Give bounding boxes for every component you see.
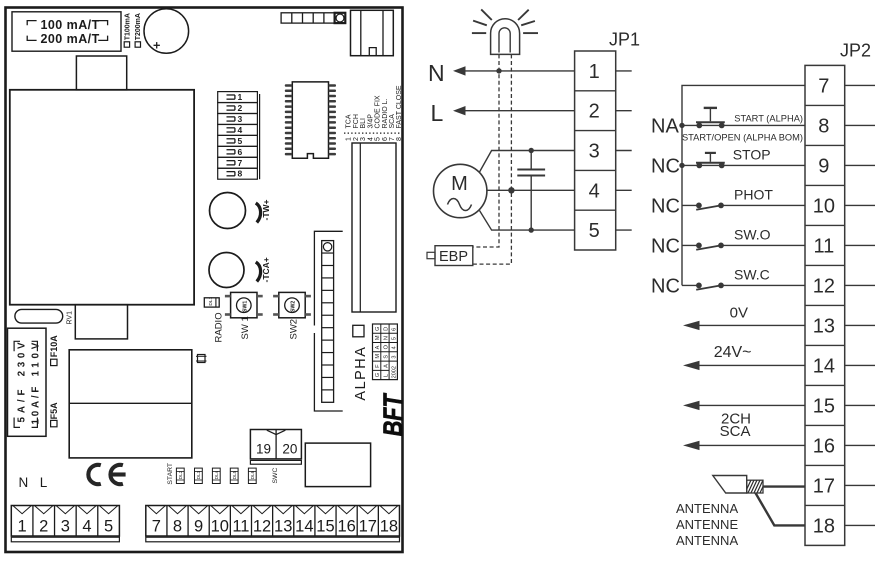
svg-text:2: 2	[353, 137, 360, 141]
svg-text:2: 2	[238, 103, 243, 113]
svg-text:DL2: DL2	[178, 470, 183, 479]
svg-text:200 mA/T: 200 mA/T	[41, 32, 100, 46]
svg-text:N: N	[383, 336, 389, 340]
svg-text:NC: NC	[651, 195, 680, 217]
svg-text:A: A	[375, 345, 381, 349]
svg-text:17: 17	[359, 517, 377, 535]
svg-text:NC: NC	[651, 155, 680, 177]
svg-text:12: 12	[813, 275, 835, 297]
svg-text:BLI: BLI	[360, 118, 367, 129]
svg-text:DL3: DL3	[196, 470, 201, 479]
svg-text:8: 8	[173, 517, 182, 535]
svg-text:RADIO L.: RADIO L.	[382, 98, 389, 128]
svg-text:6: 6	[238, 147, 243, 157]
svg-text:14: 14	[813, 355, 835, 377]
svg-text:T200mA: T200mA	[135, 13, 142, 40]
svg-text:FAST CLOSE: FAST CLOSE	[396, 85, 403, 128]
svg-text:PHOT: PHOT	[734, 186, 773, 202]
svg-text:START: START	[167, 463, 174, 485]
svg-text:6: 6	[382, 137, 389, 141]
svg-text:8: 8	[818, 115, 829, 137]
svg-text:L: L	[383, 374, 389, 377]
svg-text:D: D	[383, 327, 389, 331]
svg-text:4: 4	[238, 125, 243, 135]
svg-text:L: L	[431, 100, 444, 126]
svg-text:11: 11	[232, 517, 249, 535]
svg-text:ANTENNE: ANTENNE	[676, 517, 738, 532]
svg-text:15: 15	[316, 517, 334, 535]
svg-text:4: 4	[367, 137, 374, 141]
svg-text:F: F	[375, 364, 381, 368]
svg-text:20: 20	[282, 442, 297, 457]
svg-text:19: 19	[256, 442, 271, 457]
svg-text:0V: 0V	[730, 305, 748, 322]
svg-text:3/4P: 3/4P	[367, 114, 374, 129]
svg-text:JP1: JP1	[609, 30, 640, 50]
svg-text:SW1: SW1	[242, 301, 248, 312]
svg-text:1: 1	[238, 92, 243, 102]
svg-text:SWC: SWC	[272, 468, 279, 484]
svg-text:3: 3	[392, 356, 398, 359]
svg-text:M: M	[451, 173, 468, 195]
svg-text:-TW+: -TW+	[261, 199, 271, 220]
svg-text:7: 7	[152, 517, 161, 535]
svg-text:DL4: DL4	[214, 470, 219, 479]
svg-text:3: 3	[61, 517, 70, 535]
svg-text:SW 1: SW 1	[240, 316, 251, 339]
svg-text:RADIO: RADIO	[214, 312, 225, 342]
svg-text:NA: NA	[651, 115, 679, 137]
svg-text:10A/F: 10A/F	[31, 384, 42, 425]
svg-text:ANTENNA: ANTENNA	[676, 501, 738, 516]
svg-text:-TCA+: -TCA+	[261, 257, 271, 282]
svg-text:S: S	[383, 355, 389, 359]
svg-text:2: 2	[589, 101, 600, 123]
svg-text:BFT: BFT	[378, 392, 408, 436]
svg-text:NC: NC	[651, 235, 680, 257]
svg-text:SW.O: SW.O	[734, 226, 771, 242]
svg-text:ALPHA: ALPHA	[353, 346, 369, 401]
svg-text:18: 18	[380, 517, 398, 535]
svg-text:7: 7	[389, 137, 396, 141]
svg-text:5A/F: 5A/F	[17, 386, 28, 423]
svg-text:DL1: DL1	[208, 296, 214, 305]
svg-text:3: 3	[360, 137, 367, 141]
svg-text:9: 9	[194, 517, 203, 535]
svg-text:O: O	[383, 344, 389, 349]
svg-text:N: N	[19, 475, 29, 490]
svg-text:5: 5	[375, 137, 382, 141]
svg-text:17: 17	[813, 475, 835, 497]
svg-text:11: 11	[813, 235, 834, 257]
svg-text:T100mA: T100mA	[124, 13, 131, 40]
svg-text:18: 18	[813, 515, 835, 537]
svg-text:JP2: JP2	[840, 41, 871, 61]
svg-text:6: 6	[392, 328, 398, 331]
svg-text:FCH: FCH	[353, 114, 360, 128]
svg-text:2: 2	[39, 517, 48, 535]
svg-text:EBP: EBP	[439, 249, 468, 265]
svg-text:14: 14	[295, 517, 313, 535]
svg-text:24V~: 24V~	[714, 344, 752, 361]
svg-text:CODE FIX: CODE FIX	[375, 95, 382, 128]
svg-text:START/OPEN (ALPHA BOM): START/OPEN (ALPHA BOM)	[682, 133, 803, 143]
svg-text:SCA: SCA	[389, 114, 396, 129]
svg-text:START (ALPHA): START (ALPHA)	[734, 114, 803, 124]
svg-text:10: 10	[211, 517, 229, 535]
svg-text:16: 16	[813, 435, 835, 457]
svg-text:13: 13	[813, 315, 835, 337]
svg-text:SW2: SW2	[288, 319, 299, 340]
svg-text:8: 8	[396, 137, 403, 141]
svg-text:G: G	[375, 373, 381, 377]
svg-text:7: 7	[238, 158, 243, 168]
svg-text:DL6: DL6	[250, 470, 255, 479]
svg-text:M: M	[375, 354, 381, 359]
svg-text:230V: 230V	[17, 339, 28, 377]
svg-text:F5A: F5A	[49, 402, 59, 420]
svg-text:7: 7	[818, 75, 829, 97]
svg-text:DL5: DL5	[232, 470, 237, 479]
svg-text:SW.C: SW.C	[734, 266, 770, 282]
svg-text:16: 16	[337, 517, 355, 535]
svg-text:100 mA/T: 100 mA/T	[41, 18, 100, 32]
svg-text:13: 13	[274, 517, 292, 535]
svg-text:12: 12	[253, 517, 271, 535]
svg-text:G: G	[375, 326, 381, 330]
svg-text:TCA: TCA	[346, 114, 353, 128]
svg-text:5: 5	[104, 517, 113, 535]
svg-text:RV1: RV1	[67, 311, 74, 325]
svg-text:F10A: F10A	[49, 335, 59, 358]
svg-text:4: 4	[82, 517, 91, 535]
svg-text:3: 3	[589, 141, 600, 163]
svg-text:M: M	[375, 335, 381, 340]
svg-text:9: 9	[818, 155, 829, 177]
svg-text:1: 1	[346, 137, 353, 141]
svg-text:SCA: SCA	[720, 423, 751, 440]
svg-text:ANTENNA: ANTENNA	[676, 533, 738, 548]
svg-text:2002: 2002	[392, 366, 398, 378]
svg-text:STOP: STOP	[733, 147, 771, 163]
svg-text:N: N	[428, 60, 445, 86]
svg-text:10: 10	[813, 195, 835, 217]
svg-text:NC: NC	[651, 275, 680, 297]
svg-text:SW2: SW2	[291, 301, 297, 312]
svg-text:A: A	[383, 364, 389, 368]
svg-text:15: 15	[813, 395, 835, 417]
svg-text:1: 1	[589, 61, 600, 83]
svg-text:L: L	[40, 475, 48, 490]
svg-text:4: 4	[392, 346, 398, 349]
svg-text:110V: 110V	[31, 339, 42, 377]
svg-text:5: 5	[392, 337, 398, 340]
svg-text:5: 5	[589, 220, 600, 242]
svg-text:8: 8	[238, 169, 243, 179]
svg-text:5: 5	[238, 136, 243, 146]
svg-text:3: 3	[238, 114, 243, 124]
svg-text:4: 4	[589, 180, 600, 202]
svg-text:1: 1	[18, 517, 27, 535]
